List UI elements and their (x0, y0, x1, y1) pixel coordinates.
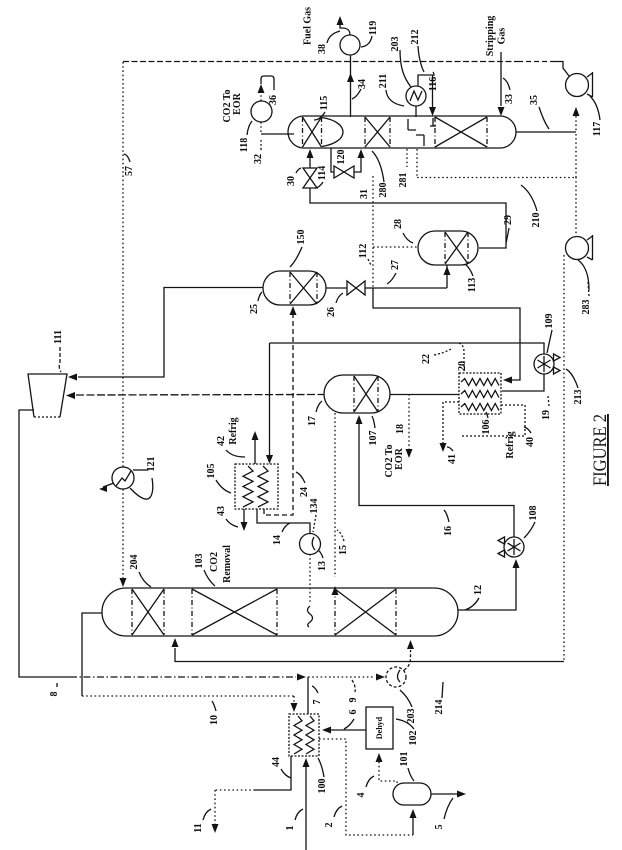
fuel-gas blower 119 (340, 35, 360, 55)
wire HX44 warmed feed to Dehyd (6) (331, 729, 366, 731)
svg-text:36: 36 (268, 95, 279, 105)
svg-text:FIGURE 2: FIGURE 2 (590, 414, 611, 486)
svg-text:40: 40 (525, 437, 536, 447)
wire column 12 overhead to compressor 108 (12) (458, 566, 516, 610)
expander turbine 111 (28, 374, 67, 417)
svg-text:203: 203 (390, 37, 401, 52)
vessel 25 packing X (289, 272, 291, 304)
svg-text:24: 24 (299, 487, 310, 497)
svg-text:15: 15 (338, 545, 349, 555)
svg-text:134: 134 (309, 499, 320, 514)
svg-text:150: 150 (296, 230, 307, 245)
wire valve 120 loop on column 115 (331, 148, 334, 172)
svg-text:25: 25 (249, 304, 260, 314)
wire HX105 gas feed drop (269, 343, 271, 456)
svg-text:108: 108 (528, 506, 539, 521)
svg-text:30: 30 (286, 176, 297, 186)
svg-text:32: 32 (253, 154, 264, 164)
wire vessel 25 liquid to turbine 111 (y288-378) (78, 288, 263, 378)
svg-text:35: 35 (529, 95, 540, 105)
wire branch 22 curve into HX 20 top (459, 343, 464, 372)
svg-text:204: 204 (129, 555, 140, 570)
svg-text:Refrig: Refrig (505, 431, 516, 458)
svg-text:121: 121 (146, 457, 157, 472)
wire stream 18 dotted CO2 to EOR (408, 394, 410, 452)
wire stream 8 long dash-dot to HX44 junction (19, 676, 70, 678)
flash vessel 25 / 150 (263, 271, 326, 305)
wire dotted header 210 (417, 177, 576, 179)
wire lean solvent return 662 from pump 283 dotted riser (563, 255, 565, 662)
vessel 28 packing X (444, 232, 446, 264)
column 115 internal baffle (408, 119, 424, 146)
svg-text:12: 12 (473, 585, 484, 595)
wire hook 36 at CO2 EOR outlet (261, 76, 274, 90)
reboiler exchanger 211 (circle with zigzag) (406, 86, 426, 106)
svg-text:41: 41 (447, 454, 458, 464)
svg-text:13: 13 (317, 561, 328, 571)
wire drum 101 gas to Dehyd (4) (379, 762, 397, 783)
wire reboiler 211 riser to column (415, 106, 417, 117)
wire valve 30/114 on column 115 bottoms (309, 152, 311, 168)
heat exchanger 20 / 106 (refrig condenser) (459, 373, 501, 414)
svg-text:115: 115 (319, 96, 330, 110)
pump 203/214 (dashed circle) (386, 667, 406, 687)
heat exchanger 105 (refrig chiller) (235, 464, 278, 509)
pump 14 (circle) (300, 534, 321, 555)
svg-text:EOR: EOR (394, 447, 405, 469)
wire compressor 108 discharge 16 to vessel 17 (359, 419, 514, 537)
absorber column 12 / 103 / 204 (vessel, x102-458 y588-636) (102, 588, 458, 636)
svg-text:27: 27 (390, 260, 401, 270)
svg-text:29: 29 (503, 215, 514, 225)
svg-text:5: 5 (434, 825, 445, 830)
CO2 compressor circle near 118/36 (251, 101, 272, 122)
wire vessel 17 liquid to turbine dotted (y394) (76, 394, 324, 397)
wire vessel 25 overhead to valve 26 (326, 287, 347, 289)
svg-text:118: 118 (239, 138, 250, 152)
wire dotted stream 15 vessel17 to column 12 (334, 413, 336, 577)
column 12 packing X2 (191, 589, 193, 635)
wire stream 24 dashed HX105 to vessel 25 (264, 312, 293, 515)
svg-text:120: 120 (336, 150, 347, 165)
stripper column 115 (vessel, x288-516 y116-148) (288, 116, 516, 148)
svg-text:107: 107 (368, 431, 379, 446)
svg-text:101: 101 (399, 752, 410, 767)
svg-text:210: 210 (531, 213, 542, 228)
svg-text:213: 213 (573, 390, 584, 405)
svg-text:EOR: EOR (232, 92, 243, 114)
svg-text:Fuel Gas: Fuel Gas (303, 7, 314, 45)
wire stream 57 dotted vertical (122, 62, 124, 467)
svg-text:281: 281 (398, 173, 409, 188)
separator drum 101 (393, 783, 431, 805)
svg-text:34: 34 (357, 79, 368, 89)
svg-text:38: 38 (317, 44, 328, 54)
svg-text:26: 26 (326, 307, 337, 317)
label 111 leader (59, 347, 61, 372)
svg-text:10: 10 (209, 715, 220, 725)
svg-text:9: 9 (348, 698, 359, 703)
wire vessel 28 overhead header y343 to compressor 109 (270, 343, 545, 354)
svg-text:43: 43 (216, 506, 227, 516)
cooler 121 (circle on dotted line 57) (112, 467, 134, 489)
svg-text:111: 111 (53, 330, 64, 344)
svg-text:211: 211 (378, 74, 389, 88)
wire stripping gas line 33 (500, 52, 502, 106)
wire dotted line pump117 to pump 283 (575, 134, 577, 177)
column 115 feed stub below arrow (430, 118, 436, 126)
svg-text:100: 100 (317, 779, 328, 794)
svg-text:42: 42 (216, 436, 227, 446)
svg-text:22: 22 (421, 354, 432, 364)
pump 283 (circle with base) (566, 237, 589, 260)
refrig compressor 108 (circle with asterisk) (504, 537, 524, 557)
refrig compressor 109 (circle with asterisk) (534, 354, 554, 374)
column 115 packing section X1 (302, 117, 304, 147)
wire stream 2 dashed from HX44 to drum 101 (319, 739, 413, 835)
svg-text:117: 117 (592, 122, 603, 136)
svg-text:109: 109 (544, 314, 555, 329)
svg-text:33: 33 (504, 94, 515, 104)
vessel 17 packing X (353, 376, 355, 412)
wire dotted stream 31/280 from column to flash line (372, 176, 374, 288)
dehydrator box 102 (366, 707, 393, 749)
column 12 packing X1 (204) (131, 589, 133, 635)
svg-text:7: 7 (312, 700, 323, 705)
wire pump 14 dotted drop into column 12 (309, 554, 311, 604)
svg-text:116: 116 (428, 77, 439, 91)
wire branch to HX 20 via line 308 (373, 288, 520, 380)
wire compressor 118 suction from column 115 (261, 133, 294, 135)
wire HX105 cold vapor return 42 (254, 434, 256, 464)
wire drum 101 liquid out 5 (431, 793, 458, 795)
wire stream 7 drop from junction into HX44 top (307, 677, 309, 714)
svg-text:19: 19 (541, 410, 552, 420)
svg-text:44: 44 (271, 757, 282, 767)
svg-text:114: 114 (317, 166, 328, 180)
column 115 internal head arc (322, 118, 343, 147)
svg-text:31: 31 (359, 189, 370, 199)
svg-text:2: 2 (324, 823, 335, 828)
svg-text:203: 203 (406, 709, 417, 724)
valve 26 (347, 281, 356, 295)
pump 117 (circle with base) (566, 74, 589, 97)
svg-text:102: 102 (408, 731, 419, 746)
wire refrig 40 line under HX 20 (462, 405, 525, 436)
wire compressor 109 discharge 19 into HX 20 (502, 374, 544, 391)
svg-text:103: 103 (194, 554, 205, 569)
svg-text:Refrig: Refrig (228, 417, 239, 444)
wire vessel 17 right nozzle to HX 20 (390, 394, 459, 396)
svg-text:212: 212 (410, 30, 421, 45)
svg-text:113: 113 (467, 278, 478, 292)
svg-text:11: 11 (193, 823, 204, 832)
svg-text:283: 283 (581, 300, 592, 315)
svg-text:112: 112 (358, 244, 369, 258)
wire turbine 111 outlet down left side (stream 8) (19, 410, 34, 678)
wire feed stream 1 into HX44 (305, 766, 307, 850)
wire column 115 bottoms to pump 117 (516, 131, 576, 133)
svg-text:CO2: CO2 (209, 552, 220, 572)
flash vessel 28 / 113 (418, 231, 478, 265)
svg-text:105: 105 (206, 464, 217, 479)
svg-text:28: 28 (393, 219, 404, 229)
svg-text:106: 106 (481, 420, 492, 435)
svg-text:Removal: Removal (222, 545, 233, 583)
wire stream 57/37 top header to pump 117 (123, 61, 518, 63)
svg-text:Stripping: Stripping (485, 16, 496, 57)
svg-text:280: 280 (378, 183, 389, 198)
wire stream 34 column 115 to blower 119 (350, 55, 352, 117)
svg-text:Gas: Gas (497, 28, 508, 45)
flash vessel 17 / 107 (324, 375, 390, 413)
svg-text:119: 119 (368, 21, 379, 35)
wire HX105 liquid to pump 14 (257, 509, 310, 534)
svg-text:8: 8 (49, 692, 60, 697)
svg-text:57: 57 (124, 166, 135, 176)
wire HX105 stream 43 out (243, 509, 245, 524)
wire refrig 41 drop from HX 20 (443, 402, 459, 447)
wire dotted continuation of 8 to pump 214 (308, 676, 375, 678)
wire fuel gas outlet from blower 119 (340, 19, 350, 35)
svg-text:1: 1 (285, 826, 296, 831)
wire stream 203 leader curve to reboiler 211 (400, 50, 411, 87)
svg-text:18: 18 (395, 424, 406, 434)
wire solvent line 29 (310, 188, 506, 248)
wire dotted stream 112 to vessel 28 (373, 246, 417, 248)
wire pump 214 discharge dashed into column 12 (404, 650, 411, 670)
svg-text:20: 20 (457, 361, 468, 371)
wire CO2-to-EOR riser through compressor 118 (260, 122, 262, 134)
wire dotted stub 281 (406, 149, 408, 167)
heat exchanger 44 (feed/product exchanger) (289, 714, 319, 756)
svg-text:Dehyd: Dehyd (375, 716, 384, 739)
svg-text:214: 214 (434, 700, 445, 715)
wire reboiler 211 return loop 116 (418, 75, 433, 107)
wire HX44 to stream 11 out (255, 756, 291, 790)
svg-text:4: 4 (356, 793, 367, 798)
column 115 packing section X3 (434, 117, 436, 147)
svg-text:14: 14 (272, 535, 283, 545)
svg-text:17: 17 (307, 416, 318, 426)
wire rich solvent 10 from column 12 to HX 44 (82, 613, 102, 696)
column 12 internal distributor squiggle (308, 606, 313, 627)
wire valve 26 outlet to vessel 28 (27) (365, 287, 447, 289)
svg-text:6: 6 (348, 710, 359, 715)
column 115 packing section X2 (364, 117, 366, 147)
column 12 packing X3 (334, 589, 336, 635)
cooler 121 duty arrow (103, 483, 114, 487)
svg-text:16: 16 (443, 526, 454, 536)
